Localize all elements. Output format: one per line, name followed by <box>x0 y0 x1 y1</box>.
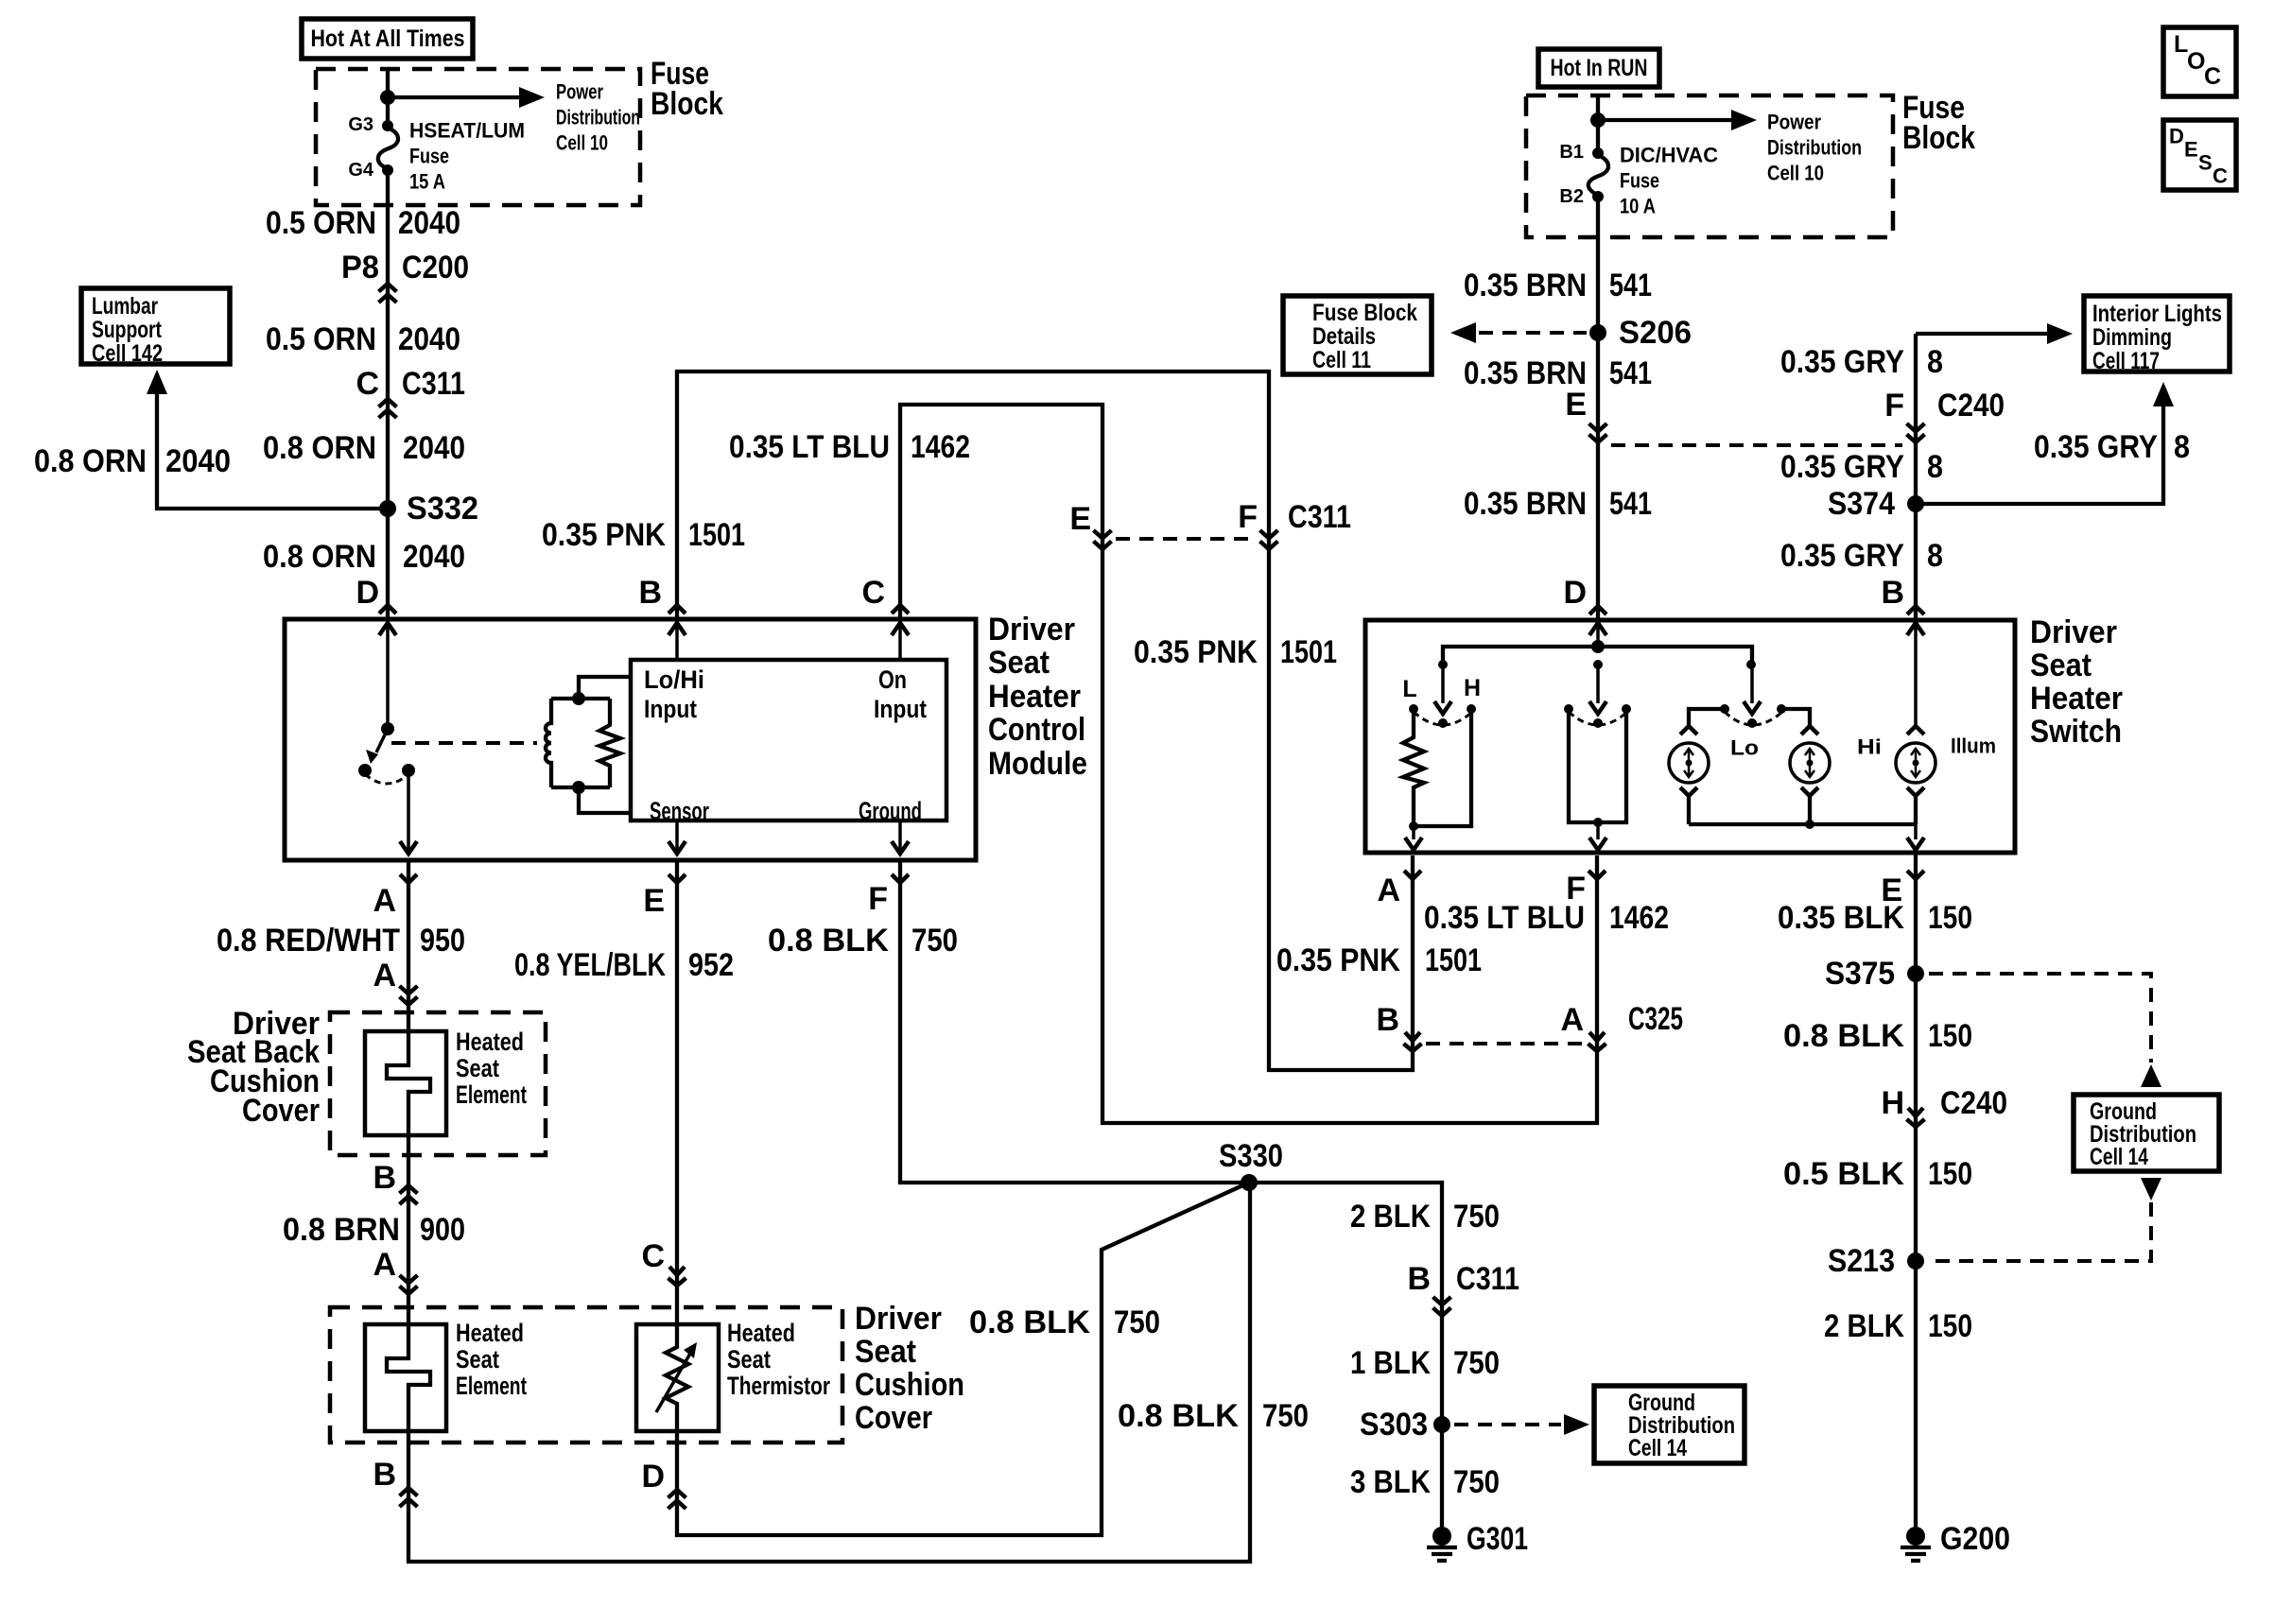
connector C240 pin F chevrons <box>1907 423 1925 442</box>
switch pin D chevron <box>1589 606 1606 614</box>
label 0.8 RED/WHT 950 <box>217 923 465 959</box>
svg-text:E: E <box>1565 387 1587 423</box>
wire: module pin B to inner box, arrow up <box>668 622 686 660</box>
wire: D input arrow up <box>1589 623 1606 647</box>
wire: thermistor D to splice S330 <box>677 1183 1249 1535</box>
junction in fuse block 1 <box>380 90 395 105</box>
svg-text:1501: 1501 <box>1425 942 1482 978</box>
label box "Hot At All Times" <box>302 19 473 59</box>
svg-text:Thermistor: Thermistor <box>727 1372 830 1400</box>
fuse DIC/HVAC 10A symbol <box>1588 155 1608 195</box>
svg-text:Seat: Seat <box>988 645 1050 681</box>
label Heated Seat Thermistor <box>727 1319 830 1400</box>
fuse block 2 dashed outline <box>1526 95 1893 237</box>
lamp switch dashed arc <box>1725 712 1782 725</box>
dashed box: driver seat back cushion cover <box>330 1012 546 1155</box>
svg-text:0.35 BRN: 0.35 BRN <box>1464 268 1587 303</box>
wire: module F to S330 (BLK 750) <box>900 860 1249 1183</box>
svg-text:E: E <box>2184 138 2198 162</box>
svg-text:HSEAT/LUM: HSEAT/LUM <box>409 119 525 143</box>
svg-text:C: C <box>861 575 885 611</box>
inner label Lo/Hi Input <box>644 665 704 723</box>
svg-text:Distribution: Distribution <box>1767 136 1862 160</box>
connector A chevrons <box>400 986 418 1005</box>
svg-text:B2: B2 <box>1559 186 1584 207</box>
splice S375 <box>1825 956 1924 992</box>
svg-text:Fuse: Fuse <box>409 145 449 168</box>
label Driver Seat Cushion Cover <box>855 1301 964 1436</box>
svg-text:Cover: Cover <box>242 1093 320 1129</box>
svg-text:0.5 ORN: 0.5 ORN <box>266 205 376 241</box>
switch pin B chevron <box>1907 606 1924 614</box>
svg-text:Cover: Cover <box>855 1400 932 1436</box>
relay contact dashed arc <box>365 774 408 784</box>
label 0.8 BLK 750 (module F) <box>768 923 958 959</box>
wire: switch E to ground G200 (BLK 150) <box>1914 855 1918 1531</box>
svg-text:2040: 2040 <box>403 539 465 575</box>
heated seat element (cushion) symbol <box>387 1296 430 1431</box>
svg-text:Fuse: Fuse <box>1620 169 1659 193</box>
arrow into ground distribution box (top) <box>2141 1064 2161 1087</box>
legend box LOC <box>2163 27 2236 96</box>
svg-text:O: O <box>2187 48 2205 75</box>
heated seat element (cushion) box <box>365 1324 446 1431</box>
junction: mode legs <box>1593 818 1603 827</box>
svg-text:Cell 142: Cell 142 <box>92 340 163 367</box>
pin B2 <box>1559 186 1604 207</box>
lamp switch right contact <box>1777 704 1786 714</box>
svg-text:E: E <box>643 883 665 919</box>
wire: D input to relay pivot, arrow up <box>379 622 396 729</box>
network bottom rail <box>551 786 610 789</box>
svg-text:Power: Power <box>1767 111 1821 134</box>
wire arrow to Power Distribution (right) <box>1598 110 1757 130</box>
relay contact (right, to A) <box>402 764 415 777</box>
svg-text:0.35 BLK: 0.35 BLK <box>1778 900 1904 936</box>
wire: element B to splice S330 (BLK 750) <box>408 1183 1250 1562</box>
svg-text:952: 952 <box>688 947 734 983</box>
label box "Lumbar Support Cell 142" <box>81 288 230 367</box>
svg-text:On: On <box>878 665 907 694</box>
label box "Ground Distribution Cell 14" (right) <box>2074 1095 2219 1171</box>
dashed ref: S303 to ground distribution <box>1454 1414 1589 1435</box>
wire arrow to mode wiper <box>1589 665 1606 714</box>
label 0.35 BRN 541 (below C240) <box>1464 486 1652 522</box>
node: network bottom <box>572 781 631 813</box>
svg-text:0.8 ORN: 0.8 ORN <box>34 443 147 479</box>
svg-text:2040: 2040 <box>403 430 465 466</box>
wire: feed into fuse block 2 <box>1596 95 1600 153</box>
svg-text:L: L <box>1402 676 1416 702</box>
svg-text:2 BLK: 2 BLK <box>1824 1308 1904 1344</box>
connector C chevrons (thermistor) <box>668 1267 686 1286</box>
svg-text:150: 150 <box>1928 1308 1972 1344</box>
svg-text:0.8 BLK: 0.8 BLK <box>969 1304 1090 1340</box>
label 0.8 BRN 900 <box>283 1212 465 1248</box>
svg-text:Details: Details <box>1312 323 1376 350</box>
heated seat element (back) symbol <box>387 1031 430 1135</box>
wire: branch to Lumbar Support with up arrow <box>147 370 387 509</box>
svg-text:750: 750 <box>911 923 958 959</box>
label 0.5 ORN 2040 (below C200) <box>266 321 460 357</box>
svg-text:8: 8 <box>2174 429 2190 465</box>
svg-text:B: B <box>1881 575 1904 611</box>
splice S303 <box>1360 1407 1450 1443</box>
svg-text:0.35 PNK: 0.35 PNK <box>542 517 666 553</box>
svg-text:C200: C200 <box>402 250 469 285</box>
svg-text:Heater: Heater <box>2030 681 2123 717</box>
svg-text:8: 8 <box>1927 449 1943 485</box>
wire arrow: to switch pin F <box>1589 822 1606 850</box>
chevron above Hi lamp <box>1801 726 1818 734</box>
svg-text:A: A <box>373 958 396 993</box>
wire: S374 branch up to interior lights <box>1916 382 2174 504</box>
svg-text:Seat: Seat <box>727 1345 771 1373</box>
svg-text:Ground: Ground <box>859 797 922 825</box>
label 0.5 BLK 150 <box>1783 1156 1972 1192</box>
wire: Ground to module pin F, arrow down <box>892 821 909 854</box>
splice S330 <box>1219 1138 1283 1191</box>
svg-text:1501: 1501 <box>688 517 745 553</box>
svg-text:A: A <box>1377 872 1400 908</box>
pin G4 <box>348 160 393 181</box>
svg-text:Fuse Block: Fuse Block <box>1312 300 1417 326</box>
svg-text:Block: Block <box>651 86 723 122</box>
svg-text:S206: S206 <box>1619 315 1692 351</box>
svg-text:0.35 GRY: 0.35 GRY <box>1780 449 1904 485</box>
relay switch pivot <box>381 722 394 735</box>
dashed ref: ground distribution to S213 <box>1929 1202 2151 1261</box>
label 0.35 BRN 541 (below S206) <box>1464 355 1652 391</box>
svg-text:Seat: Seat <box>456 1054 499 1082</box>
wire: Sensor to module pin E, arrow down <box>668 821 686 854</box>
junction: D on bus <box>1591 640 1605 653</box>
connector C311 pin E chevrons <box>1094 530 1112 549</box>
svg-text:Seat: Seat <box>855 1334 916 1370</box>
label 0.8 ORN 2040 (lumbar branch) <box>34 443 231 479</box>
connector C240 pin E chevrons <box>1589 423 1607 442</box>
wire: H contact leg <box>1414 709 1471 826</box>
label "DIC/HVAC Fuse 10 A" <box>1620 144 1718 218</box>
svg-text:S332: S332 <box>407 491 478 527</box>
label 0.8 BLK 750 (thermistor leg) <box>969 1304 1160 1340</box>
module pin A chevron <box>400 874 417 883</box>
label Driver Seat Back Cushion Cover <box>187 1006 320 1129</box>
svg-text:DIC/HVAC: DIC/HVAC <box>1620 144 1718 167</box>
splice S374 <box>1828 486 1924 522</box>
svg-text:Interior Lights: Interior Lights <box>2092 301 2222 327</box>
title "Driver Seat Heater Control Module" <box>988 612 1087 782</box>
svg-text:0.8 RED/WHT: 0.8 RED/WHT <box>217 923 400 959</box>
wire: B2 down to switch D (BRN 541) <box>1596 197 1600 620</box>
connector A chevrons (cushion) <box>400 1275 418 1294</box>
wire: A down to heated seat element (RED/WHT 950) <box>407 860 410 1033</box>
svg-text:150: 150 <box>1928 1018 1972 1054</box>
wire: GRY 8 down to switch B <box>1914 334 1918 620</box>
svg-text:0.5 ORN: 0.5 ORN <box>266 321 376 357</box>
wire: module B to switch A (PNK 1501) <box>677 371 1413 1070</box>
wire: module C to switch F (LT BLU 1462) <box>900 405 1597 1123</box>
svg-text:B: B <box>373 1160 396 1196</box>
svg-text:750: 750 <box>1453 1464 1500 1500</box>
mode switch right contact <box>1622 704 1631 714</box>
node dot right branch <box>1746 660 1756 669</box>
lamp switch left contact <box>1720 704 1729 714</box>
label 2 BLK 750 <box>1350 1199 1500 1235</box>
control unit inner box <box>631 660 946 821</box>
svg-text:0.8 BLK: 0.8 BLK <box>1783 1018 1904 1054</box>
svg-text:0.35 PNK: 0.35 PNK <box>1276 942 1400 978</box>
wire: left contact to Lo lamp <box>1689 709 1725 726</box>
connector C200 pin P8 labels <box>341 250 469 285</box>
dashed ref: S375 to ground distribution (upper) <box>1929 974 2151 1063</box>
svg-text:0.8 ORN: 0.8 ORN <box>263 430 376 466</box>
svg-text:0.8 BLK: 0.8 BLK <box>768 923 889 959</box>
H contact <box>1464 675 1481 714</box>
connector B chevrons <box>400 1185 418 1204</box>
svg-text:15 A: 15 A <box>409 170 445 194</box>
svg-text:E: E <box>1069 501 1091 537</box>
label 0.35 GRY 8 (above S374) <box>1780 449 1943 485</box>
wire: Hi lamp to lamp bus <box>1808 796 1812 824</box>
label 0.35 BRN 541 (above S206) <box>1464 268 1652 303</box>
wire: Illum lamp to lamp bus <box>1914 796 1918 824</box>
svg-text:0.8 BLK: 0.8 BLK <box>1118 1398 1239 1434</box>
arrow out of ground distribution box (bottom) <box>2141 1178 2161 1201</box>
svg-text:Hot In RUN: Hot In RUN <box>1551 55 1648 81</box>
module pin C chevron <box>892 605 909 613</box>
connector C311 chevrons <box>379 399 397 418</box>
svg-text:900: 900 <box>420 1212 465 1248</box>
wire: feed into fuse block 1 <box>386 69 390 126</box>
svg-text:B: B <box>1407 1261 1431 1297</box>
label 0.35 GRY 8 (top) <box>1780 344 1943 380</box>
lamp Illum <box>1896 743 1936 783</box>
relay contact (left) <box>358 764 372 777</box>
svg-text:S375: S375 <box>1825 956 1895 992</box>
svg-text:Control: Control <box>988 712 1085 748</box>
legend box DESC <box>2163 120 2236 190</box>
svg-text:0.35 GRY: 0.35 GRY <box>1780 538 1904 574</box>
module pin F chevron <box>892 874 909 883</box>
svg-text:F: F <box>868 881 888 917</box>
lamp Lo <box>1669 743 1709 783</box>
svg-text:C311: C311 <box>1456 1261 1519 1297</box>
svg-text:D: D <box>641 1459 665 1494</box>
junction: Hi on lamp bus <box>1805 820 1814 829</box>
junction: L/H legs <box>1409 821 1418 831</box>
svg-text:Element: Element <box>456 1372 527 1400</box>
svg-text:C325: C325 <box>1628 1001 1683 1037</box>
svg-text:Heated: Heated <box>727 1319 795 1347</box>
label Heated Seat Element (cushion) <box>456 1319 527 1400</box>
ground G301 <box>1427 1521 1528 1561</box>
svg-text:C311: C311 <box>402 366 465 402</box>
svg-text:750: 750 <box>1453 1345 1500 1381</box>
wire arrow: GRY feed to Interior Lights Dimming <box>1916 323 2073 344</box>
label "HSEAT/LUM Fuse 15 A" <box>409 119 525 194</box>
connector C240 pin F label <box>1884 388 2005 423</box>
svg-text:0.5 BLK: 0.5 BLK <box>1783 1156 1904 1192</box>
svg-text:541: 541 <box>1609 268 1652 303</box>
svg-text:C: C <box>641 1238 665 1274</box>
mode switch left contact <box>1564 704 1573 714</box>
svg-text:0.35 LT BLU: 0.35 LT BLU <box>1424 900 1585 936</box>
label 2 BLK 150 <box>1824 1308 1972 1344</box>
junction in fuse block 2 <box>1590 112 1606 128</box>
label 0.8 BLK 150 <box>1783 1018 1972 1054</box>
switch pin F chevron <box>1588 871 1606 879</box>
dashed link: lever to coil <box>391 741 537 745</box>
connector C311 pin C labels <box>356 366 465 402</box>
svg-text:Lo: Lo <box>1730 736 1759 760</box>
svg-text:1 BLK: 1 BLK <box>1350 1345 1431 1381</box>
label box "Interior Lights Dimming Cell 117" <box>2084 296 2230 374</box>
chevron above Illum lamp <box>1907 726 1924 734</box>
svg-text:0.8 BRN: 0.8 BRN <box>283 1212 400 1248</box>
chevron below Lo lamp <box>1680 787 1697 796</box>
switch S1 outline <box>1365 620 2015 853</box>
pin B1 <box>1559 142 1604 163</box>
label 3 BLK 750 <box>1350 1464 1500 1500</box>
svg-text:B1: B1 <box>1559 142 1584 163</box>
svg-text:Lumbar: Lumbar <box>92 293 158 320</box>
label 0.35 PNK 1501 (module B) <box>542 517 745 553</box>
module pin D chevron <box>379 605 396 613</box>
svg-text:D: D <box>2169 125 2184 148</box>
title "Driver Seat Heater Switch" <box>2030 614 2123 750</box>
svg-text:G200: G200 <box>1940 1521 2010 1557</box>
svg-text:S: S <box>2198 151 2213 175</box>
mode wiper <box>1593 718 1603 728</box>
svg-text:Cushion: Cushion <box>855 1367 964 1403</box>
svg-text:150: 150 <box>1928 900 1972 936</box>
svg-text:Illum: Illum <box>1951 734 1996 758</box>
svg-text:C: C <box>2204 63 2221 90</box>
label box "Fuse Block Details Cell 11" <box>1283 296 1432 374</box>
relay switch lever with arrowhead <box>366 729 388 764</box>
svg-text:Driver: Driver <box>2030 614 2117 650</box>
svg-text:8: 8 <box>1927 344 1943 380</box>
svg-text:Cell 10: Cell 10 <box>556 131 608 155</box>
module U1 outline <box>285 619 976 860</box>
svg-text:F: F <box>1238 499 1258 535</box>
lamp wiper <box>1747 718 1757 728</box>
wire: E down to thermistor (YEL/BLK 952) <box>675 860 679 1326</box>
relay coil (left branch) <box>546 699 551 787</box>
svg-text:C311: C311 <box>1288 499 1351 535</box>
svg-text:750: 750 <box>1262 1398 1309 1434</box>
svg-text:10 A: 10 A <box>1620 195 1656 218</box>
resistor (switch Lo) <box>1403 709 1424 826</box>
svg-text:C240: C240 <box>1940 1085 2007 1121</box>
connector C311 pin B label (ground leg) <box>1407 1261 1519 1297</box>
svg-text:F: F <box>1884 388 1904 423</box>
svg-text:Heater: Heater <box>988 679 1081 715</box>
wire: Lo lamp to lamp bus <box>1687 796 1691 824</box>
svg-text:F: F <box>1566 871 1586 907</box>
L contact <box>1402 676 1418 714</box>
chevron below Illum lamp <box>1907 787 1924 796</box>
svg-text:Seat: Seat <box>2030 648 2092 683</box>
svg-text:B: B <box>1376 1002 1399 1038</box>
svg-text:Hot At All Times: Hot At All Times <box>311 26 465 52</box>
svg-text:1462: 1462 <box>911 429 970 465</box>
heated seat thermistor box <box>636 1324 719 1431</box>
svg-text:Heated: Heated <box>456 1028 524 1056</box>
svg-text:541: 541 <box>1609 355 1652 391</box>
svg-text:Module: Module <box>988 746 1087 782</box>
dashed box: driver seat cushion cover <box>330 1307 842 1443</box>
ground G200 <box>1901 1521 2010 1561</box>
svg-text:8: 8 <box>1927 538 1943 574</box>
svg-text:Driver: Driver <box>855 1301 942 1337</box>
svg-text:2040: 2040 <box>165 443 231 479</box>
wire arrow to lamp wiper <box>1744 665 1761 714</box>
svg-text:2040: 2040 <box>398 321 460 357</box>
label 0.8 ORN 2040 (below S332) <box>263 539 465 575</box>
connector C311 pin F chevrons <box>1260 530 1278 549</box>
splice S332 <box>379 491 478 527</box>
svg-text:150: 150 <box>1928 1156 1972 1192</box>
svg-text:S330: S330 <box>1219 1138 1283 1174</box>
svg-text:C: C <box>356 366 379 402</box>
svg-text:D: D <box>356 575 379 611</box>
svg-text:G3: G3 <box>348 114 373 135</box>
svg-text:Dimming: Dimming <box>2092 324 2172 351</box>
label box "Ground Distribution Cell 14" (lower) <box>1594 1386 1745 1463</box>
svg-text:Cell 117: Cell 117 <box>2092 348 2160 374</box>
svg-text:G301: G301 <box>1467 1521 1528 1557</box>
svg-text:0.35 GRY: 0.35 GRY <box>2034 429 2158 465</box>
svg-text:2040: 2040 <box>398 205 460 241</box>
wire arrow: to switch pin E <box>1907 824 1924 850</box>
svg-text:Cell 14: Cell 14 <box>1628 1435 1687 1461</box>
chevron below Hi lamp <box>1801 787 1818 796</box>
chevron above Lo lamp <box>1680 726 1697 734</box>
svg-text:B: B <box>373 1457 396 1493</box>
svg-text:Cell 10: Cell 10 <box>1767 162 1824 185</box>
wire: module pin C to inner box, arrow up <box>892 622 909 660</box>
connector C325 pin B chevrons <box>1404 1032 1422 1051</box>
svg-text:S374: S374 <box>1828 486 1895 522</box>
label box "Hot In RUN" <box>1538 49 1659 87</box>
splice S213 <box>1828 1243 1924 1279</box>
inner label On Input <box>874 665 927 723</box>
svg-text:S213: S213 <box>1828 1243 1895 1279</box>
svg-text:Driver: Driver <box>988 612 1075 648</box>
connector C325 pin A label <box>1560 1001 1683 1038</box>
label "Power Distribution Cell 10" (right) <box>1767 111 1862 185</box>
svg-text:0.35 PNK: 0.35 PNK <box>1134 634 1258 670</box>
wire: S330 to ground G301 (BLK 750) <box>1249 1183 1442 1531</box>
switch pin A chevron <box>1404 871 1421 879</box>
heated seat element (back) box <box>365 1031 446 1135</box>
svg-text:1462: 1462 <box>1609 900 1669 936</box>
node dot left branch <box>1438 660 1448 669</box>
fuse block 1 dashed outline <box>316 69 640 205</box>
svg-text:0.8 ORN: 0.8 ORN <box>263 539 376 575</box>
wire arrow to L/H wiper <box>1434 665 1451 714</box>
wire: relay output to module pin A, arrow down <box>400 770 417 854</box>
thermistor RT symbol <box>656 1324 697 1431</box>
svg-text:C240: C240 <box>1937 388 2005 423</box>
connector C200 chevrons <box>379 284 397 302</box>
connector C240 E-F dashed link <box>1611 443 1902 447</box>
svg-text:Block: Block <box>1902 120 1975 156</box>
svg-text:C: C <box>2213 164 2228 188</box>
label "Power Distribution Cell 10" (left) <box>556 80 640 155</box>
